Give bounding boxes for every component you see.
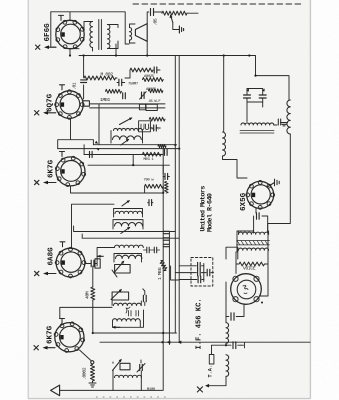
wire field coil right [274, 124, 277, 126]
transformer T1 secondary [108, 25, 110, 49]
ground V6 [268, 179, 279, 186]
speaker frame [231, 274, 262, 305]
wire V6 cathode [254, 208, 268, 233]
wire rect top [256, 76, 290, 100]
IF1 bottom winding [113, 136, 142, 140]
avc arrow 2 [96, 148, 99, 151]
scan border left [27, 0, 29, 399]
grid cap V4 [60, 242, 65, 247]
pot wiper arrow [171, 16, 173, 23]
wire speaker bottom [226, 304, 244, 317]
electrolytic C19 [198, 276, 201, 283]
IF1 top winding [114, 128, 143, 130]
svg-text:700 w: 700 w [144, 179, 155, 183]
wire bus y145 [93, 144, 176, 146]
trimmer arrow IF1 [120, 118, 132, 125]
wire top bus [51, 12, 129, 44]
osc coil L11 [226, 323, 229, 344]
wire V4 plate box [72, 204, 180, 248]
wire to speaker [260, 252, 269, 296]
wire V1 plate lead [83, 29, 85, 31]
capacitor C19b [163, 238, 169, 240]
capacitor C22 [278, 119, 280, 125]
cap box C9 [139, 104, 145, 110]
wire wiper to ground [173, 23, 180, 30]
osc cap pair [147, 247, 149, 253]
wire avc left [58, 104, 99, 155]
RF trimmer box [112, 292, 129, 300]
IF2 box1 [114, 209, 143, 218]
can box C10b [139, 121, 151, 132]
ground R12 [89, 381, 96, 387]
IF2 box2 [113, 220, 143, 229]
grid cap V1 [59, 15, 64, 20]
artifact dots [96, 396, 166, 398]
wire C15 leads [85, 248, 115, 267]
RF coil bottom winding [113, 319, 141, 321]
junction dot B+ [248, 54, 250, 56]
wire bus x174 [174, 56, 176, 334]
wire R2 right [116, 77, 118, 79]
bus arrow y342 [167, 341, 171, 344]
wire to tone cap [147, 12, 149, 24]
transformer T1 core [99, 20, 102, 50]
transformer T2 core [237, 241, 270, 245]
svg-text:.01: .01 [72, 82, 78, 90]
osc bottom winding [116, 255, 142, 258]
wire bus field coil [223, 56, 225, 132]
wire R11 down [92, 300, 94, 333]
resistor R20 [239, 262, 265, 266]
box left [95, 259, 100, 268]
capacitor C6 [154, 67, 157, 73]
capacitor C1 .05 [151, 9, 154, 16]
wire choke bottom [223, 156, 224, 160]
resistor R12 [91, 365, 95, 382]
wire R3 left [125, 70, 130, 78]
terminal X V5 [34, 346, 55, 350]
osc trimmer arrow [115, 262, 124, 273]
capacitor C15 [91, 260, 94, 267]
grid connector V2 [83, 101, 90, 106]
resistor R5b [149, 89, 163, 93]
capacitor C26 [231, 313, 234, 321]
IF1 box [111, 131, 143, 144]
junction dot c [115, 54, 117, 56]
wire V1 bottom feed [70, 48, 79, 50]
junction dot y165 [132, 164, 134, 166]
osc trimmer arrow2 [112, 270, 117, 277]
transformer T1 primary [90, 22, 93, 48]
wire osc chain top [225, 282, 227, 323]
wire V3 bottom [71, 186, 164, 193]
IF2 bottom winding [115, 223, 143, 226]
junction dot osc [225, 344, 227, 346]
svg-text:40M: 40M [85, 291, 91, 299]
capacitor C7 [123, 93, 126, 99]
capacitor C19a [163, 231, 169, 233]
capacitor C27 [233, 342, 236, 349]
grid cap V5 [60, 319, 65, 324]
wire bus y108 [90, 107, 165, 109]
svg-text:I.F. 456 KC.: I.F. 456 KC. [195, 298, 203, 349]
capacitor C14 [165, 174, 168, 180]
wire ant coil frame [113, 360, 141, 390]
junction dot f [174, 144, 176, 146]
terminal X V1 [36, 45, 57, 49]
trimmer C8 [142, 92, 145, 98]
wire y165 link [88, 155, 169, 175]
capacitor C12 [90, 152, 93, 158]
svg-text:M 002: M 002 [101, 72, 114, 78]
tube V3 6K7G [55, 156, 85, 186]
IF2 top winding [115, 211, 142, 213]
resistor R4 [143, 78, 164, 82]
dashed box [191, 258, 213, 287]
wire voice coil leads [130, 24, 136, 43]
junction dot rect [254, 75, 256, 77]
field coil L9 [241, 123, 274, 125]
wire osc mid [226, 343, 241, 345]
wire bus y152 [84, 154, 163, 156]
grid cap V3 [60, 152, 65, 157]
electrolytic C18b [207, 269, 210, 276]
electrolytic C18 [198, 269, 201, 276]
wire B+ top bus [70, 44, 256, 76]
RF trimmer arrow [111, 290, 121, 300]
wire filter bus v [203, 264, 205, 282]
RF coil arrow left [113, 326, 120, 328]
cap C27 end mark [241, 343, 245, 348]
svg-text:6A8G: 6A8G [48, 247, 56, 266]
resistor R13 [165, 182, 169, 194]
wire osc left stub [212, 345, 227, 354]
ant cap C25 [140, 364, 143, 370]
capacitor C5 [119, 79, 122, 86]
tube V4 6A8G [55, 247, 86, 278]
wire bus x163 [162, 146, 164, 391]
svg-text:A0025: A0025 [146, 88, 157, 92]
capacitor C16 [149, 200, 152, 206]
svg-text:.05: .05 [153, 18, 159, 26]
terminal X V2 [35, 111, 56, 115]
wire RF coil frame [112, 300, 143, 327]
RF coil top winding [114, 303, 142, 305]
wire bus x180 [178, 56, 180, 342]
grid cap V2 [60, 85, 65, 90]
component box small [209, 355, 214, 365]
IF2 trimmer arrow [122, 201, 129, 206]
hv winding L10 [287, 100, 290, 134]
field coil core [240, 131, 274, 133]
resistor R8 [143, 152, 162, 156]
terminal X V4 [35, 271, 57, 275]
electrolytic C17 [198, 263, 201, 270]
resistor R7 [158, 144, 166, 147]
wire filter feed 3 [179, 279, 204, 281]
resistor R9 tone [145, 184, 164, 188]
TA arrow [205, 384, 209, 388]
junction dot R11 [92, 332, 94, 334]
wire V6 left [224, 160, 247, 179]
padder box [115, 265, 131, 274]
wire bus y342 [100, 341, 310, 343]
voice coil L1 [130, 28, 132, 41]
svg-text:1 MEG: 1 MEG [157, 267, 163, 280]
svg-text:M100: M100 [147, 388, 156, 392]
wire bus y333 [93, 332, 177, 334]
resistor R1 tone pot [162, 11, 187, 15]
junction dot y342 [161, 341, 163, 343]
wire bus x169 [168, 232, 170, 345]
dashed chassis line [133, 3, 303, 5]
osc coil L12 [226, 355, 229, 377]
svg-text:45 W.F: 45 W.F [149, 100, 162, 104]
wire T1 leads [84, 22, 118, 52]
wire antenna lead [60, 389, 163, 391]
resistor R6 [149, 117, 165, 121]
filter cap C21 [259, 95, 266, 98]
wire R9 [145, 186, 164, 193]
speaker horn [135, 24, 147, 42]
IF2 trimmer arrow2 [121, 228, 130, 234]
junction dot y333 [162, 332, 164, 334]
IF1 trimmer arrow2 [121, 140, 129, 146]
osc top winding [115, 245, 144, 247]
wire filter feed 1 [179, 265, 204, 267]
ground pot [179, 26, 183, 33]
wire V5 top [60, 266, 112, 318]
capacitor C11 [154, 125, 157, 131]
speaker terminal dot [261, 302, 263, 304]
capacitor C13 [165, 149, 168, 155]
wire hv to V6 [268, 134, 291, 233]
wire V2 grid feed [83, 56, 85, 100]
wire R1 right [187, 12, 198, 14]
ant coil winding [115, 375, 142, 377]
tube V2 6Q7G [55, 90, 84, 119]
antenna [51, 385, 60, 396]
junction dot a [69, 54, 71, 56]
wire C1 to R1 [154, 11, 163, 13]
wire filter frame [247, 89, 263, 122]
svg-text:6Q7G: 6Q7G [47, 93, 55, 112]
wire dashed box right [226, 247, 238, 259]
tube V1 6F6G [56, 20, 84, 48]
svg-text:6K7G: 6K7G [47, 325, 55, 344]
wire TA lead [208, 376, 226, 385]
wire V5 cathode diag [80, 350, 92, 361]
wire bus y104 [90, 103, 165, 105]
choke L8 [223, 132, 226, 156]
transformer T2 top winding [239, 232, 269, 234]
resistor R3 [130, 68, 153, 72]
wire osc to bus [171, 266, 180, 280]
svg-text:6K7G: 6K7G [48, 159, 56, 178]
svg-text:6X5G: 6X5G [240, 192, 248, 211]
avc arrow 1 [95, 141, 98, 144]
svg-text:6F6G: 6F6G [44, 23, 52, 42]
ant trimmer arrow [113, 360, 122, 371]
capacitor C19c [163, 244, 169, 246]
tube V5 6K7G [54, 322, 84, 352]
wire filter feed 2 [175, 272, 213, 274]
wire V1 plate to top bus [51, 12, 70, 47]
resistor R5 [106, 89, 122, 93]
terminal X V3 [35, 180, 57, 184]
svg-text:.0002: .0002 [82, 367, 88, 380]
wire T2 frame [236, 231, 269, 274]
RF cap C24 [143, 295, 146, 301]
filter cap C20 [244, 95, 251, 98]
left arrow osc [97, 255, 103, 257]
junction circle [91, 361, 94, 364]
junction dot d [146, 54, 148, 56]
scan border right [309, 0, 311, 399]
transformer T2 secondary [239, 248, 269, 250]
bus arrow y342b [178, 341, 182, 344]
capacitor C23 [257, 213, 260, 220]
cap box C10 [146, 104, 157, 110]
junction dot b [83, 54, 85, 56]
osc box [114, 254, 142, 263]
tube V6 6X5G [246, 181, 275, 210]
ant trimmer box [120, 363, 130, 370]
svg-text:T.A.: T.A. [208, 365, 214, 377]
capacitor C4 [81, 80, 87, 83]
scan border bottom [28, 398, 310, 400]
junction dot g [178, 148, 180, 150]
junction dot e [223, 54, 225, 56]
svg-text:1MEG: 1MEG [100, 97, 110, 103]
RF coil core [126, 307, 139, 316]
wire top-left down [146, 41, 148, 55]
svg-text:VOICE: VOICE [243, 266, 256, 272]
resistor R10 diag [159, 260, 168, 271]
svg-text:Model R-640: Model R-640 [207, 193, 215, 232]
junction dot V3k [162, 192, 164, 194]
wire bus y148 [58, 148, 180, 150]
resistor R11 [91, 287, 95, 300]
resistor R2 [84, 76, 116, 80]
svg-text:750M?: 750M? [128, 83, 138, 87]
svg-text:MEG 1: MEG 1 [144, 158, 155, 162]
